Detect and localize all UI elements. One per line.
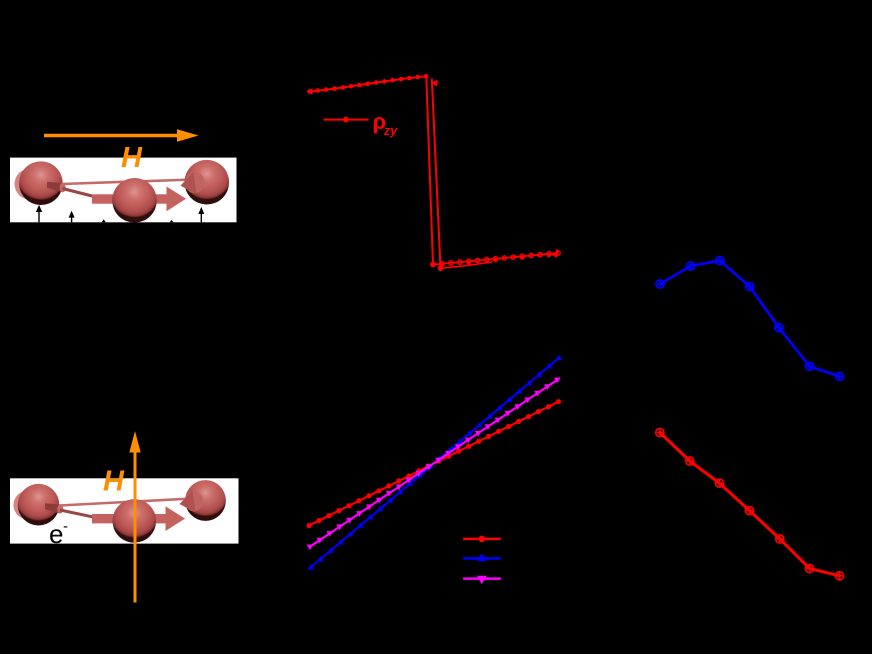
legend line red (bottom-middle)	[463, 538, 501, 541]
svg-text:-: -	[63, 518, 68, 535]
svg-text:zy: zy	[383, 124, 398, 138]
left atom sphere (bottom-left)	[18, 484, 60, 526]
orange field arrow H (bottom-left, vertical)	[134, 450, 137, 603]
hysteresis vertical drop line (left sweep)	[426, 76, 433, 264]
hysteresis vertical drop line (right sweep)	[432, 79, 441, 269]
black arrow tip nub 3 (top-left)	[102, 219, 106, 222]
end tick of bottom branch	[556, 250, 558, 257]
spin cone into left atom (bottom-left)	[45, 503, 60, 513]
spin arrow head of centre atom (bottom-left)	[166, 506, 186, 531]
long bond rod left-right atoms (bottom-left)	[60, 499, 193, 506]
rho_zy bottom branch line (red)	[433, 253, 558, 265]
orange field arrow H (top-left, horizontal)	[44, 134, 180, 137]
spin arrow shaft of centre atom (bottom-left)	[92, 514, 166, 523]
spin arrow shaft of centre atom (top-left)	[92, 194, 167, 203]
long bond rod left-right atoms (top-left)	[62, 180, 193, 185]
legend marker red circle	[479, 536, 486, 543]
red data curve (bottom-right panel)	[660, 433, 840, 576]
rho_zy bottom branch secondary segment	[441, 262, 493, 269]
blue circle-plus markers	[656, 280, 664, 288]
left atom sphere (top-left)	[19, 161, 63, 205]
svg-text:H: H	[121, 142, 143, 174]
rho_zy bottom branch markers (open circles)	[431, 251, 560, 267]
centre atom sphere (top-left)	[112, 178, 157, 223]
right atom sphere (top-left)	[185, 160, 230, 205]
blue data curve (top-right panel)	[660, 261, 840, 377]
black spin-up arrow 5 (top-left)	[200, 212, 202, 222]
ghost sphere behind left atom (top-left)	[15, 169, 46, 200]
magenta MR line markers (down triangles)	[307, 378, 561, 551]
magenta MR line (bottom-middle panel)	[310, 380, 557, 547]
black spin-up arrow 1 (top-left)	[38, 209, 40, 222]
spin arrow head of centre atom (top-left)	[167, 187, 187, 212]
black spin-up arrow 2 (top-left)	[71, 215, 73, 222]
sweep-direction triangle at left end of top branch	[307, 88, 313, 94]
rho_zy hysteresis top branch line (red)	[310, 76, 427, 91]
red MR line markers (filled circles)	[307, 399, 562, 528]
spin cone on right atom (top-left)	[185, 172, 205, 193]
spin cone into left atom (top-left)	[47, 182, 63, 192]
ghost sphere behind left atom (bottom-left)	[14, 491, 43, 520]
red circle-plus markers	[656, 428, 664, 436]
blue MR line markers (triangles)	[308, 355, 562, 570]
white background panel (bottom-left illustration)	[10, 478, 239, 543]
marker at bottom of left drop	[430, 262, 435, 267]
legend marker magenta down-triangle	[477, 576, 487, 585]
spin cone on right atom (bottom-left)	[185, 491, 203, 511]
legend line blue (bottom-middle)	[463, 557, 501, 560]
sweep-direction triangle marker near top of drop	[431, 80, 438, 87]
centre atom sphere (bottom-left)	[113, 499, 157, 543]
blue MR line (bottom-middle panel)	[311, 358, 559, 568]
rho_zy top branch markers (filled circles)	[307, 74, 428, 94]
legend marker for rho_zy	[343, 117, 349, 123]
red MR line (bottom-middle panel)	[309, 402, 558, 526]
legend marker blue triangle	[477, 553, 486, 561]
svg-text:H: H	[103, 466, 125, 498]
svg-text:e: e	[49, 519, 63, 549]
legend line for rho_zy	[324, 119, 369, 121]
diagonal rod to centre arrow (top-left)	[63, 189, 99, 198]
marker at bottom of right drop	[438, 266, 443, 271]
legend line magenta (bottom-middle)	[463, 577, 501, 580]
black arrow tip nub 4 (top-left)	[170, 220, 174, 222]
diagonal rod to centre arrow (bottom-left)	[60, 510, 97, 518]
right atom sphere (bottom-left)	[185, 480, 226, 521]
white background panel (top-left illustration)	[10, 158, 237, 223]
